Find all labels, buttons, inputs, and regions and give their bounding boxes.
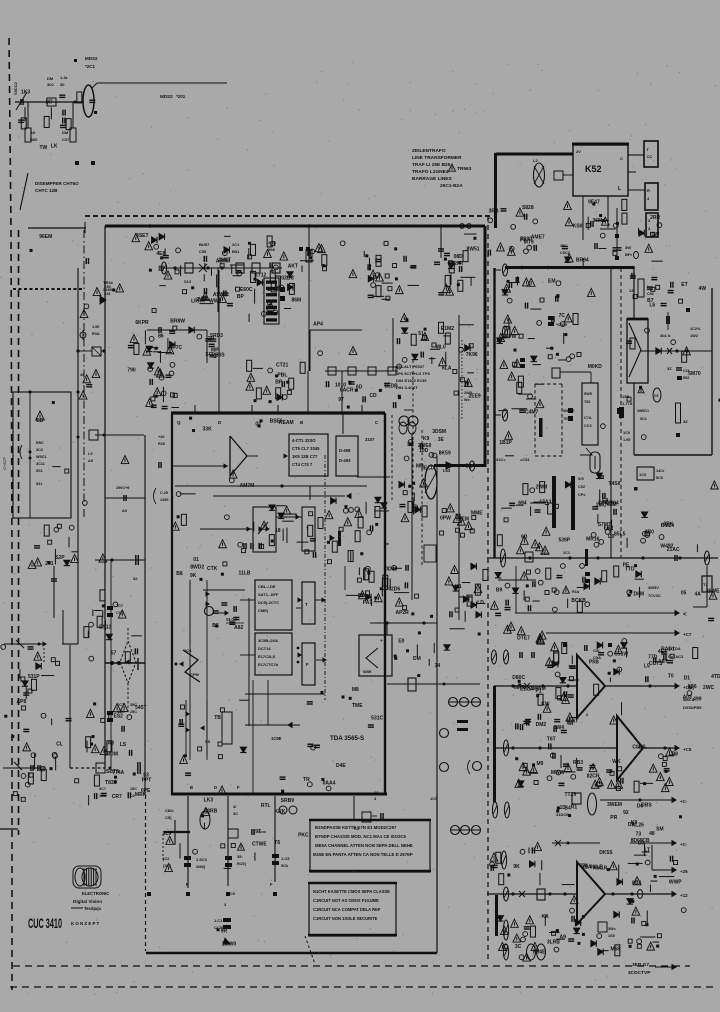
- svg-text:RP6S: RP6S: [212, 353, 226, 359]
- svg-text:TRAF LI 25E B25: TRAF LI 25E B25: [412, 162, 451, 168]
- svg-text:D0: D0: [608, 534, 615, 540]
- svg-text:C+5CP: C+5CP: [2, 457, 7, 470]
- svg-text:CD: CD: [369, 393, 377, 399]
- svg-text:3W: 3W: [625, 245, 631, 250]
- svg-text:96EM: 96EM: [39, 234, 52, 240]
- svg-text:EBLA: EBLA: [520, 686, 534, 692]
- svg-text:774A: 774A: [112, 770, 124, 776]
- svg-text:508: 508: [268, 247, 275, 252]
- svg-text:ELECTRONIC: ELECTRONIC: [82, 891, 109, 896]
- svg-text:DTE7: DTE7: [517, 636, 530, 642]
- svg-text:TR563: TR563: [457, 166, 472, 172]
- svg-text:539P: 539P: [558, 538, 570, 544]
- svg-text:CME|: CME|: [258, 608, 268, 613]
- svg-text:33K: 33K: [203, 427, 213, 433]
- svg-text:D6M: D6M: [634, 591, 645, 597]
- svg-text:Cx7AC3: Cx7AC3: [668, 654, 684, 659]
- svg-text:1C5: 1C5: [430, 796, 438, 801]
- svg-text:M0: M0: [568, 665, 575, 671]
- svg-text:C55: C55: [199, 249, 207, 254]
- svg-text:SM: SM: [656, 826, 664, 832]
- svg-text:531P: 531P: [28, 674, 40, 680]
- svg-text:T2: T2: [703, 582, 708, 587]
- svg-text:Q: Q: [177, 420, 181, 425]
- svg-text:M0KD: M0KD: [588, 364, 603, 370]
- svg-text:CC5]: CC5]: [214, 925, 224, 930]
- svg-text:3W=: 3W=: [608, 927, 617, 931]
- svg-text:T: T: [306, 526, 309, 531]
- svg-text:LK: LK: [51, 144, 58, 150]
- svg-text:C5]: C5]: [165, 815, 172, 820]
- svg-text:B8: B8: [176, 571, 183, 577]
- svg-text:302: 302: [47, 82, 54, 87]
- svg-text:MME: MME: [471, 511, 483, 517]
- svg-text:F: F: [237, 785, 240, 790]
- svg-text:C1RCUIT NCA COMPAT DELA REF: C1RCUIT NCA COMPAT DELA REF: [313, 907, 381, 912]
- svg-text:1C2%: 1C2%: [690, 327, 701, 331]
- svg-text:3C: 3C: [233, 811, 238, 816]
- svg-text:TDA 3565-S: TDA 3565-S: [330, 735, 364, 742]
- svg-text:25C1-B2A: 25C1-B2A: [440, 183, 463, 189]
- svg-text:85L5: 85L5: [614, 532, 626, 538]
- svg-text:CR7: CR7: [112, 794, 122, 800]
- svg-text:8K59: 8K59: [439, 451, 451, 457]
- svg-text:CPx: CPx: [578, 493, 586, 497]
- svg-text:SRB9: SRB9: [281, 798, 295, 804]
- svg-text:86: 86: [158, 333, 164, 339]
- svg-text:+C7: +C7: [683, 632, 692, 637]
- svg-text:1.C5: 1.C5: [281, 856, 290, 861]
- svg-text:CCTS: CCTS: [649, 661, 663, 667]
- svg-text:C1:: C1:: [165, 808, 171, 813]
- svg-text:R1: R1: [571, 805, 578, 811]
- svg-text:AM7M: AM7M: [240, 483, 255, 489]
- svg-text:2V: 2V: [576, 149, 581, 154]
- svg-text:1D: 1D: [559, 805, 566, 811]
- svg-text:DA: DA: [628, 822, 636, 828]
- svg-text:35:: 35:: [237, 854, 243, 859]
- svg-text:7K96: 7K96: [466, 352, 478, 358]
- svg-text:1Z: 1Z: [629, 288, 634, 293]
- svg-text:+12: +12: [680, 893, 688, 898]
- svg-text:M7: M7: [46, 99, 53, 105]
- svg-text:EM: EM: [548, 279, 556, 285]
- svg-text:3E: 3E: [438, 437, 445, 443]
- svg-text:3EB G7: 3EB G7: [632, 962, 649, 968]
- svg-text:86M: 86M: [292, 298, 302, 304]
- svg-text:4W: 4W: [699, 286, 707, 292]
- svg-text:RB3: RB3: [573, 760, 583, 766]
- svg-text:2M3]: 2M3]: [196, 864, 206, 869]
- svg-text:CUC 3410: CUC 3410: [28, 915, 62, 931]
- svg-text:C0: C0: [230, 891, 236, 896]
- svg-text:C5: C5: [654, 394, 659, 398]
- svg-text:SS: SS: [205, 739, 211, 744]
- svg-text:PA1: PA1: [363, 600, 373, 606]
- svg-text:D1: D1: [684, 675, 691, 681]
- svg-text:3W5-Z: 3W5-Z: [563, 409, 575, 413]
- svg-text:1250: 1250: [160, 498, 168, 502]
- svg-text:2MC: 2MC: [596, 502, 607, 508]
- svg-text:B60: B60: [30, 137, 38, 142]
- svg-text:1C7: 1C7: [117, 703, 124, 707]
- svg-text:BM24: BM24: [661, 523, 675, 529]
- svg-text:2WC: 2WC: [703, 685, 715, 691]
- svg-text:541: 541: [36, 482, 42, 486]
- svg-text:K O N Z E P T: K O N Z E P T: [71, 921, 100, 926]
- svg-text:4TD: 4TD: [711, 674, 720, 680]
- svg-text:+C-: +C-: [680, 842, 688, 847]
- svg-text:1W2: 1W2: [690, 334, 698, 338]
- svg-text:WWP: WWP: [669, 880, 682, 886]
- svg-text:8EM: 8EM: [459, 516, 469, 522]
- svg-text:21AC: 21AC: [667, 547, 680, 553]
- svg-text:02BC: 02BC: [281, 276, 294, 282]
- svg-text:BPr: BPr: [625, 252, 633, 257]
- svg-text:C5Z: C5Z: [578, 485, 586, 489]
- svg-text:2M8T: 2M8T: [218, 257, 231, 263]
- svg-text:CC3: CC3: [584, 424, 592, 428]
- svg-text:Wx: Wx: [464, 398, 471, 402]
- svg-text:05: 05: [681, 590, 687, 596]
- svg-text:3Z: 3Z: [667, 366, 672, 371]
- svg-text:CTK: CTK: [207, 566, 218, 572]
- svg-text:1.50: 1.50: [92, 325, 99, 329]
- svg-text:C2: C2: [130, 794, 135, 798]
- svg-text:A82: A82: [234, 625, 243, 631]
- svg-text:1.3z: 1.3z: [60, 75, 68, 80]
- svg-text:36M: 36M: [592, 218, 602, 224]
- svg-text:B9: B9: [496, 588, 503, 594]
- svg-text:8WD2: 8WD2: [190, 564, 204, 570]
- svg-text:DC5)-2CTC: DC5)-2CTC: [258, 600, 279, 605]
- svg-text:3WEM: 3WEM: [607, 802, 622, 808]
- svg-text:C: C: [620, 156, 623, 161]
- svg-text:SLCY: SLCY: [226, 617, 237, 622]
- svg-text:48: 48: [649, 831, 655, 837]
- svg-text:L9: L9: [88, 452, 92, 456]
- svg-text:F: F: [186, 882, 189, 887]
- svg-text:C3: C3: [354, 826, 360, 831]
- svg-text:4S: 4S: [80, 373, 85, 377]
- svg-text:1S5: 1S5: [608, 934, 615, 938]
- svg-text:4DST: 4DST: [565, 718, 578, 724]
- svg-text:CB: CB: [642, 838, 650, 844]
- svg-text:9K: 9K: [513, 864, 520, 870]
- svg-text:DM2: DM2: [536, 722, 547, 728]
- svg-text:ZEILENTRAFO: ZEILENTRAFO: [412, 148, 446, 154]
- svg-text:CL: CL: [56, 742, 63, 748]
- svg-text:ER2: ER2: [604, 525, 614, 531]
- svg-text:D-498: D-498: [339, 448, 351, 453]
- svg-text:3DSM: 3DSM: [432, 429, 446, 435]
- svg-text:2WM: 2WM: [536, 484, 548, 490]
- svg-text:9K: 9K: [190, 573, 197, 579]
- svg-text:MT9: MT9: [524, 240, 534, 246]
- svg-text:K1: K1: [455, 584, 462, 590]
- svg-text:0AA4: 0AA4: [323, 780, 336, 786]
- svg-text:1.77S: 1.77S: [622, 401, 633, 406]
- svg-text:CPM: CPM: [190, 672, 200, 677]
- svg-text:25C: 25C: [130, 710, 137, 714]
- svg-text:LT: LT: [644, 848, 650, 854]
- svg-text:M8: M8: [352, 687, 359, 693]
- svg-text:776: 776: [580, 864, 589, 870]
- svg-text:3b1 b: 3b1 b: [660, 333, 671, 338]
- svg-text:2W3: 2W3: [196, 297, 207, 303]
- svg-text:1K5 12B C77: 1K5 12B C77: [292, 454, 318, 459]
- svg-text:+C-: +C-: [680, 799, 688, 804]
- svg-text:P1: P1: [536, 689, 542, 695]
- svg-text:15C: 15C: [130, 787, 137, 791]
- svg-text:2C1: 2C1: [563, 551, 570, 555]
- svg-text:TB: TB: [214, 715, 221, 721]
- svg-text:11LB: 11LB: [239, 570, 251, 576]
- svg-text:3C: 3C: [515, 944, 522, 950]
- svg-text:1B1P: 1B1P: [499, 440, 512, 446]
- svg-text:D94 E1322 E135: D94 E1322 E135: [396, 378, 427, 383]
- svg-text:77D: 77D: [648, 654, 658, 660]
- svg-text:08D: 08D: [454, 254, 464, 260]
- svg-text:L63: L63: [443, 468, 451, 473]
- svg-text:AM1R: AM1R: [593, 866, 608, 872]
- svg-text:A9: A9: [30, 130, 36, 135]
- svg-text:C5A: C5A: [593, 655, 601, 660]
- svg-text:DK5S: DK5S: [599, 850, 613, 856]
- svg-text:LD: LD: [477, 600, 484, 606]
- svg-text:T4S6: T4S6: [609, 481, 621, 487]
- svg-text:3LRB: 3LRB: [547, 939, 560, 945]
- svg-text:ES2: ES2: [114, 714, 124, 720]
- svg-text:TRAFO L1GNE4: TRAFO L1GNE4: [412, 169, 449, 175]
- svg-text:MDS2: MDS2: [160, 94, 173, 99]
- svg-text:3C5B-/2A6: 3C5B-/2A6: [258, 638, 279, 643]
- svg-text:F: F: [306, 662, 309, 667]
- svg-text:3C2: 3C2: [36, 448, 43, 452]
- svg-text:MDS2: MDS2: [85, 56, 98, 61]
- svg-text:315: 315: [104, 292, 110, 296]
- svg-text:1.95: 1.95: [623, 438, 630, 442]
- svg-text:4P6 5CT0H-G TP6: 4P6 5CT0H-G TP6: [396, 371, 431, 376]
- svg-text:TW: TW: [39, 145, 47, 151]
- svg-text:+: +: [380, 638, 383, 643]
- svg-text:9T: 9T: [338, 397, 344, 403]
- svg-text:765: 765: [584, 400, 590, 404]
- svg-text:C5): C5): [593, 648, 600, 653]
- svg-text:7CV3C: 7CV3C: [648, 593, 661, 598]
- svg-text:E1M2: E1M2: [441, 326, 454, 332]
- svg-text:2W5: 2W5: [464, 391, 472, 395]
- svg-text:BARRAGE LINES: BARRAGE LINES: [412, 176, 453, 182]
- svg-text:CBL-/-DE: CBL-/-DE: [258, 584, 276, 589]
- svg-text:290C+9: 290C+9: [116, 486, 129, 490]
- svg-text:[C2: [C2: [163, 856, 170, 861]
- svg-text:C1RCUIT NOT AS CMOS F1GUME: C1RCUIT NOT AS CMOS F1GUME: [313, 898, 379, 903]
- svg-text:A5: A5: [88, 459, 93, 463]
- svg-text:5MCA: 5MCA: [683, 697, 694, 702]
- svg-text:3107: 3107: [365, 437, 375, 442]
- svg-text:82CR: 82CR: [587, 774, 600, 780]
- svg-text:1C7: 1C7: [116, 604, 123, 608]
- svg-text:3C: 3C: [374, 791, 379, 795]
- svg-text:C37: C37: [62, 137, 70, 142]
- svg-text:7C4: 7C4: [184, 648, 192, 653]
- svg-text:C7A: C7A: [584, 416, 592, 420]
- svg-text:57: 57: [111, 650, 117, 656]
- svg-text:02D6: 02D6: [388, 587, 400, 593]
- svg-text:S5CC2: S5CC2: [13, 81, 18, 95]
- svg-text:B6: B6: [212, 623, 219, 629]
- svg-text:+20: +20: [158, 435, 164, 439]
- svg-text:L: L: [618, 186, 621, 192]
- svg-text:CT4 C73 7: CT4 C73 7: [292, 462, 313, 467]
- svg-text:WW0: WW0: [209, 298, 221, 304]
- svg-text:L2: L2: [533, 158, 538, 163]
- svg-text:[2C]: [2C]: [163, 863, 171, 868]
- svg-text:1.5C3: 1.5C3: [196, 857, 207, 862]
- svg-text:5W5: 5W5: [584, 392, 592, 396]
- svg-text:32: 32: [133, 576, 138, 581]
- svg-text:K9: K9: [423, 436, 430, 442]
- svg-text:D-493: D-493: [339, 458, 351, 463]
- svg-text:5RD3: 5RD3: [210, 333, 223, 339]
- svg-text:499: 499: [693, 696, 702, 702]
- svg-text:K52: K52: [585, 164, 602, 174]
- svg-text:R1b: R1b: [572, 590, 580, 594]
- svg-text:PR8: PR8: [589, 659, 599, 665]
- svg-text:1C9: 1C9: [623, 431, 630, 435]
- svg-text:TME: TME: [352, 703, 363, 709]
- svg-text:5S1: 5S1: [36, 469, 43, 473]
- svg-text:3ECD: 3ECD: [421, 466, 435, 472]
- svg-text:KA: KA: [541, 914, 549, 920]
- svg-text:PKC: PKC: [298, 833, 309, 839]
- svg-text:6D: 6D: [356, 384, 363, 390]
- svg-text:M9: M9: [537, 761, 544, 767]
- svg-text:7C: 7C: [559, 313, 566, 319]
- svg-text:3RB: 3RB: [489, 209, 499, 215]
- svg-text:35C: 35C: [130, 703, 137, 707]
- svg-text:MWW: MWW: [551, 770, 565, 776]
- svg-text:5M70: 5M70: [688, 371, 701, 377]
- svg-text:484-ALT P6537: 484-ALT P6537: [396, 364, 425, 369]
- svg-text:Digital Vision: Digital Vision: [73, 899, 102, 904]
- svg-text:3W5V: 3W5V: [648, 585, 659, 590]
- svg-text:B: B: [190, 785, 193, 790]
- svg-text:R26: R26: [158, 442, 165, 446]
- svg-text:BU57: BU57: [199, 242, 210, 247]
- svg-text:A8: A8: [108, 741, 115, 747]
- svg-text:C4M7: C4M7: [525, 410, 539, 416]
- svg-text:T: T: [305, 602, 308, 607]
- svg-text:SAT1--DFF: SAT1--DFF: [258, 592, 279, 597]
- svg-text:+C5: +C5: [683, 747, 692, 752]
- svg-text:1C2: 1C2: [99, 794, 106, 798]
- svg-text:DBS: DBS: [641, 802, 652, 808]
- svg-text:C52: C52: [647, 292, 654, 296]
- svg-text:765-1: 765-1: [563, 417, 573, 421]
- svg-text:R15]: R15]: [237, 861, 246, 866]
- svg-text:AP2R: AP2R: [395, 610, 409, 616]
- svg-text:CT5 CL7 3345: CT5 CL7 3345: [292, 446, 320, 451]
- svg-text:B9: B9: [672, 751, 679, 757]
- svg-text:31DCB: 31DCB: [556, 812, 569, 817]
- svg-text:8D69: 8D69: [631, 838, 643, 844]
- svg-text:1.C1: 1.C1: [214, 918, 223, 923]
- svg-text:EB: EB: [36, 418, 43, 424]
- svg-text:ET: ET: [681, 282, 687, 288]
- svg-text:T6T: T6T: [547, 737, 556, 743]
- svg-text:CHTC 12B: CHTC 12B: [35, 188, 58, 193]
- svg-text:B7NDP CHASSIS MOD. NC1 MA1 CE: B7NDP CHASSIS MOD. NC1 MA1 CE ISO2C5: [315, 834, 407, 839]
- svg-text:A9: A9: [122, 509, 127, 513]
- svg-text:BP: BP: [237, 294, 245, 300]
- svg-text:CC2: CC2: [116, 611, 124, 615]
- svg-text:0PW: 0PW: [440, 515, 451, 521]
- svg-text:F: F: [270, 882, 273, 887]
- svg-text:C.25: C.25: [160, 491, 168, 495]
- svg-text:CT21: CT21: [276, 362, 288, 368]
- svg-text:2RR: 2RR: [650, 215, 660, 221]
- svg-text:6LA: 6LA: [442, 365, 452, 371]
- svg-text:51: 51: [418, 331, 424, 337]
- svg-text:<: <: [683, 612, 687, 618]
- svg-text:C2C: C2C: [117, 710, 125, 714]
- svg-text:DCT16: DCT16: [258, 646, 271, 651]
- svg-text:E0: E0: [398, 639, 404, 645]
- svg-text:KS0: KS0: [573, 224, 583, 230]
- svg-text:DM: DM: [47, 76, 54, 81]
- svg-text:DM: DM: [62, 130, 69, 135]
- svg-text:W5A: W5A: [540, 552, 549, 556]
- svg-text:34: 34: [434, 663, 440, 669]
- svg-text:531C: 531C: [371, 716, 383, 722]
- svg-text:31C=: 31C=: [496, 457, 506, 462]
- svg-text:15B: 15B: [622, 394, 629, 399]
- svg-text:CC: CC: [647, 154, 653, 159]
- svg-text:5Ck: 5Ck: [281, 863, 289, 868]
- svg-text:B51: B51: [232, 249, 240, 254]
- svg-text:3W5C1: 3W5C1: [637, 409, 649, 413]
- svg-text:R: R: [647, 188, 650, 193]
- svg-text:L6: L6: [649, 303, 655, 309]
- svg-text:BR8W: BR8W: [170, 319, 185, 325]
- svg-text:W5C1: W5C1: [36, 455, 47, 459]
- svg-text:2C1: 2C1: [232, 242, 240, 247]
- svg-text:S13: S13: [184, 279, 192, 284]
- svg-text:30: 30: [60, 82, 65, 87]
- svg-text:LK3: LK3: [204, 798, 214, 804]
- svg-text:DX5UPB5: DX5UPB5: [683, 705, 702, 710]
- svg-text:3xTDA: 3xTDA: [668, 646, 681, 651]
- svg-text:4-CT1 32SO: 4-CT1 32SO: [292, 438, 316, 443]
- svg-text:9D: 9D: [521, 535, 528, 541]
- svg-text:0PE: 0PE: [141, 788, 151, 794]
- svg-text:4P7C: 4P7C: [170, 345, 183, 351]
- svg-text:14Cr: 14Cr: [656, 469, 665, 473]
- svg-text:WK: WK: [612, 759, 621, 765]
- svg-text:LS: LS: [120, 742, 127, 748]
- svg-text:MR16: MR16: [586, 536, 600, 542]
- svg-text:KEAM: KEAM: [279, 420, 294, 426]
- svg-text:PPT: PPT: [142, 778, 152, 784]
- svg-text:D: D: [214, 785, 217, 790]
- svg-text:ME5A CHANNEL ATTEN NCM SEPA: ME5A CHANNEL ATTEN NCM SEPA DELL NEHE: [315, 843, 413, 848]
- svg-text:4A: 4A: [695, 591, 702, 597]
- svg-text:AP8: AP8: [17, 699, 27, 705]
- svg-text:+25: +25: [680, 869, 688, 874]
- svg-text:1C0: 1C0: [639, 472, 647, 477]
